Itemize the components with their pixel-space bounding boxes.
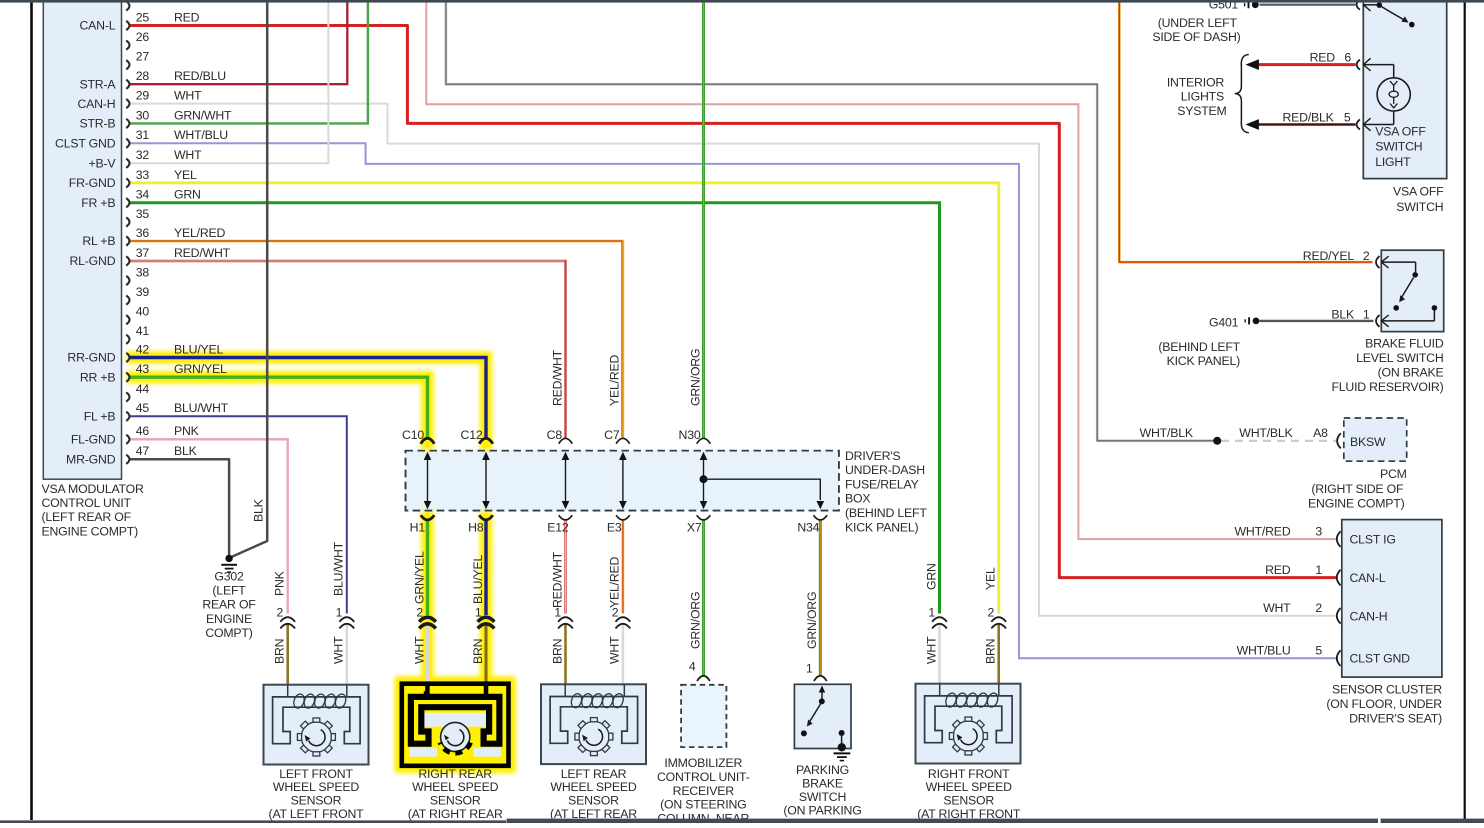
wire: pin 42 BLU/YEL to fuse box C12 (highlighted) <box>129 358 486 439</box>
top window bar <box>0 0 1484 3</box>
wire: BRN to left front sensor pin 2 <box>286 624 289 685</box>
left rear wheel speed sensor box <box>541 684 646 764</box>
VSA modulator pin connector arcs <box>126 1 129 464</box>
svg-text:1: 1 <box>928 606 935 620</box>
fuse box N30 junction dot and branch to N34 <box>700 475 825 509</box>
svg-text:SENSOR CLUSTER: SENSOR CLUSTER <box>1332 683 1442 697</box>
svg-text:+B-V: +B-V <box>89 156 117 170</box>
fuse box connector C10 <box>421 438 435 443</box>
wire: pin 36 YEL/RED to fuse box C7 <box>129 241 623 439</box>
highlight band: RR-GND BLU/YEL wire (pin 42) <box>127 358 486 451</box>
svg-text:C8: C8 <box>547 428 563 442</box>
svg-text:BRN: BRN <box>984 639 998 664</box>
wire: GRN/ORG fuse box X7 down to immobilizer pin 4 <box>702 520 705 676</box>
svg-text:RED: RED <box>1310 50 1336 64</box>
svg-text:1: 1 <box>1363 307 1370 321</box>
svg-text:KICK PANEL): KICK PANEL) <box>845 520 919 534</box>
wire: fuse box E3 YEL/RED down to inline connector <box>622 520 625 614</box>
inline connector left front 1 <box>339 617 354 628</box>
wire: WHT to left front sensor pin 1 <box>345 624 348 685</box>
svg-text:C10: C10 <box>402 428 424 442</box>
highlighted sensor yoke <box>411 697 500 744</box>
svg-text:G401: G401 <box>1209 315 1239 329</box>
svg-text:LEFT FRONT: LEFT FRONT <box>279 767 353 781</box>
svg-text:(LEFT: (LEFT <box>212 584 246 598</box>
svg-text:37: 37 <box>136 246 150 260</box>
svg-text:RIGHT REAR: RIGHT REAR <box>418 767 492 781</box>
svg-text:WHT: WHT <box>174 148 202 162</box>
svg-text:4: 4 <box>689 660 696 674</box>
svg-text:WHEEL SPEED: WHEEL SPEED <box>412 780 498 794</box>
VSA OFF switch internal switch <box>1363 2 1414 27</box>
highlight band: H8 to right rear sensor <box>480 511 493 684</box>
svg-text:(ON STEERING: (ON STEERING <box>660 798 746 812</box>
svg-text:(ON BRAKE: (ON BRAKE <box>1378 366 1444 380</box>
svg-text:33: 33 <box>136 168 150 182</box>
svg-text:WHT: WHT <box>412 636 426 664</box>
fuse box connector C12 <box>479 438 493 443</box>
wire: G401 BLK to brake fluid level switch pin 1 <box>1260 320 1374 322</box>
sensor cluster connector CLST GND <box>1337 650 1341 666</box>
fuse box pass-through arrow C12/H8 <box>482 452 490 509</box>
sensor rotation arrow <box>309 730 325 746</box>
svg-text:1: 1 <box>1315 563 1322 577</box>
highlighted sensor coil tick <box>424 691 428 698</box>
fuse box connector H1 <box>421 515 435 520</box>
fuse box connector E12 <box>559 515 573 520</box>
wire: WHT below inline connector to right front sensor pin 1 <box>938 624 941 684</box>
wire: fuse box H8 BLU/YEL down to inline connector (highlighted) <box>484 520 487 615</box>
svg-text:46: 46 <box>136 424 150 438</box>
svg-text:(ON FLOOR, UNDER: (ON FLOOR, UNDER <box>1326 697 1442 711</box>
svg-text:ENGINE COMPT): ENGINE COMPT) <box>1308 496 1405 510</box>
svg-text:GRN/YEL: GRN/YEL <box>174 362 227 376</box>
svg-text:2: 2 <box>988 606 995 620</box>
svg-text:(BEHIND LEFT: (BEHIND LEFT <box>1158 340 1240 354</box>
wire: pin 46 PNK to left front sensor pin 2 <box>129 439 288 613</box>
svg-text:PCM: PCM <box>1380 467 1407 481</box>
svg-text:45: 45 <box>136 401 150 415</box>
svg-text:(BEHIND LEFT: (BEHIND LEFT <box>845 506 927 520</box>
wire: pin 28 RED/BLU up to top <box>129 2 347 84</box>
fuse box connector N34 <box>814 515 828 520</box>
svg-text:GRN: GRN <box>174 188 201 202</box>
highlight band: RR +B GRN/YEL wire (pin 43) <box>127 377 428 450</box>
svg-text:CLST GND: CLST GND <box>55 136 116 150</box>
right page border <box>1464 0 1466 819</box>
svg-text:MR-GND: MR-GND <box>66 453 116 467</box>
svg-text:RED: RED <box>174 10 200 24</box>
wire: GRN/ORG from top to fuse box N30 <box>702 2 705 439</box>
parking brake switch ground <box>834 753 851 760</box>
svg-text:FL-GND: FL-GND <box>71 433 116 447</box>
driver's under-dash fuse/relay box <box>406 451 839 511</box>
inline connector right front 1 <box>932 617 947 628</box>
svg-text:(LEFT REAR OF: (LEFT REAR OF <box>42 510 132 524</box>
svg-text:BLU/YEL: BLU/YEL <box>174 342 224 356</box>
svg-text:WHEEL SPEED: WHEEL SPEED <box>273 780 359 794</box>
svg-text:WHEEL SPEED: WHEEL SPEED <box>926 780 1012 794</box>
VSA OFF switch caption <box>1393 185 1444 214</box>
svg-text:WHT/BLK: WHT/BLK <box>1239 426 1293 440</box>
svg-text:FL +B: FL +B <box>84 410 116 424</box>
svg-text:YEL: YEL <box>174 168 197 182</box>
svg-text:YEL: YEL <box>984 567 998 590</box>
ground G302 <box>221 555 237 573</box>
sensor yoke <box>550 697 638 744</box>
RED/BLK pin 5 labels <box>1282 110 1350 124</box>
svg-text:YEL/RED: YEL/RED <box>608 354 622 406</box>
svg-text:1: 1 <box>336 606 343 620</box>
wire: BRN below inline connector to right front sensor pin 2 <box>997 624 1000 684</box>
sensor tone wheel <box>953 721 983 751</box>
svg-text:WHT/BLU: WHT/BLU <box>1237 643 1291 657</box>
svg-text:1: 1 <box>806 662 813 676</box>
svg-text:2: 2 <box>1363 249 1370 263</box>
svg-text:FLUID RESERVOIR): FLUID RESERVOIR) <box>1331 380 1443 394</box>
svg-text:BRN: BRN <box>471 639 485 664</box>
svg-text:CAN-H: CAN-H <box>1350 609 1388 623</box>
svg-text:RIGHT FRONT: RIGHT FRONT <box>928 767 1010 781</box>
inline connector right rear 1 <box>478 617 495 628</box>
sensor rotation arrow <box>961 729 977 745</box>
svg-text:LIGHTS: LIGHTS <box>1181 90 1224 104</box>
bottom window bar <box>0 820 506 823</box>
brake fluid level switch contacts <box>1381 256 1437 327</box>
svg-text:35: 35 <box>136 207 150 221</box>
parking brake switch caption <box>783 763 861 818</box>
svg-text:WHT: WHT <box>174 89 202 103</box>
fuse box connector X7 <box>697 515 711 520</box>
immobilizer caption <box>657 756 750 825</box>
sensor coil <box>944 692 958 709</box>
svg-text:STR-A: STR-A <box>79 77 116 91</box>
svg-text:42: 42 <box>136 342 150 356</box>
wire: pin 29 WHT to sensor cluster CAN-H <box>129 104 1336 616</box>
fuse box bottom labels <box>410 521 820 535</box>
svg-text:CONTROL UNIT-: CONTROL UNIT- <box>657 770 750 784</box>
svg-text:RECEIVER: RECEIVER <box>673 784 735 798</box>
svg-text:BOX: BOX <box>845 492 870 506</box>
PCM BKSW box <box>1344 418 1407 461</box>
svg-text:SENSOR: SENSOR <box>943 794 994 808</box>
wire: WHT/RED from top to sensor cluster CLST IG <box>426 2 1336 539</box>
highlight glow: right rear wheel speed sensor <box>395 676 517 773</box>
sensor lead stubs <box>939 684 941 696</box>
svg-text:2: 2 <box>1315 601 1322 615</box>
svg-text:29: 29 <box>136 89 150 103</box>
svg-text:YEL/RED: YEL/RED <box>608 556 622 608</box>
svg-text:GRN/ORG: GRN/ORG <box>688 592 702 649</box>
svg-text:DRIVER'S SEAT): DRIVER'S SEAT) <box>1349 711 1442 725</box>
fuse box border redraw <box>406 451 839 511</box>
wire: WHT to right rear sensor pin 2 (highlighted) <box>426 624 429 685</box>
svg-text:WHT/RED: WHT/RED <box>1235 524 1291 538</box>
VSA modulator pin numbers <box>136 10 150 458</box>
svg-text:SENSOR: SENSOR <box>568 794 619 808</box>
svg-text:INTERIOR: INTERIOR <box>1167 76 1224 90</box>
WHT/BLK labels and A8 <box>1140 426 1329 440</box>
svg-text:GRN/ORG: GRN/ORG <box>805 592 819 649</box>
svg-text:1: 1 <box>475 606 482 620</box>
svg-text:WHT/BLU: WHT/BLU <box>174 128 228 142</box>
wire: pin 34 GRN to right front sensor pin 1 <box>129 203 940 614</box>
sensor yoke <box>273 697 361 744</box>
svg-text:(RIGHT SIDE OF: (RIGHT SIDE OF <box>1311 482 1404 496</box>
svg-text:E12: E12 <box>547 521 569 535</box>
left page border <box>30 0 33 820</box>
svg-text:RED/WHT: RED/WHT <box>174 246 231 260</box>
brake fluid level switch box <box>1381 250 1443 331</box>
G401 caption <box>1158 315 1240 368</box>
wire: RED from interior lights system to VSA OFF switch pin 6 <box>1258 63 1356 66</box>
svg-text:VSA OFF: VSA OFF <box>1393 185 1444 199</box>
svg-text:32: 32 <box>136 148 150 162</box>
svg-text:VSA OFF: VSA OFF <box>1375 124 1426 138</box>
svg-text:RED: RED <box>1265 563 1291 577</box>
svg-text:SWITCH: SWITCH <box>1396 200 1443 214</box>
RED/YEL pin 2 labels <box>1303 249 1370 263</box>
svg-text:43: 43 <box>136 362 150 376</box>
svg-text:RED/BLK: RED/BLK <box>1282 110 1334 124</box>
svg-text:PNK: PNK <box>174 424 200 438</box>
svg-text:39: 39 <box>136 285 150 299</box>
sensor rotation arrow <box>586 729 602 745</box>
svg-text:(AT LEFT FRONT: (AT LEFT FRONT <box>269 807 365 821</box>
VSA OFF switch pin 6 connector <box>1357 60 1360 70</box>
VSA OFF switch light caption <box>1375 124 1426 169</box>
svg-text:YEL/RED: YEL/RED <box>174 226 226 240</box>
svg-text:VSA MODULATOR: VSA MODULATOR <box>42 482 144 496</box>
inline connector left rear 1 <box>558 617 573 628</box>
BKSW junction dot <box>1213 437 1221 445</box>
fuse box pass-through arrow C8/E12 <box>562 452 570 509</box>
right front wheel speed sensor caption <box>917 767 1021 821</box>
svg-text:GRN/WHT: GRN/WHT <box>174 108 232 122</box>
svg-text:BRAKE: BRAKE <box>802 776 843 790</box>
svg-text:RED/WHT: RED/WHT <box>550 349 564 406</box>
svg-text:ENGINE COMPT): ENGINE COMPT) <box>42 524 139 538</box>
parking brake switch box <box>794 684 851 748</box>
svg-text:RR-GND: RR-GND <box>67 351 115 365</box>
svg-text:N30: N30 <box>679 428 701 442</box>
svg-text:ENGINE: ENGINE <box>206 612 252 626</box>
svg-text:PARKING: PARKING <box>796 763 849 777</box>
sensor cluster connector CAN-L <box>1337 570 1341 586</box>
svg-text:6: 6 <box>1344 50 1351 64</box>
ground G401 <box>1245 317 1259 324</box>
G302 caption <box>202 569 256 640</box>
svg-text:SIDE OF DASH): SIDE OF DASH) <box>1152 30 1240 44</box>
RED pin 6 labels <box>1310 50 1352 64</box>
fuse box pass-through arrow N30/X7 <box>700 452 708 509</box>
sensor pin numbers <box>277 606 995 620</box>
VSA OFF switch top pin connector <box>1357 0 1360 10</box>
wire: GRN/ORG fuse box N34 down to parking brake switch pin 1 <box>819 520 822 676</box>
PCM caption <box>1308 467 1407 510</box>
svg-text:WHT: WHT <box>332 636 346 664</box>
wire: pin 47 BLK to ground G302 <box>129 459 229 555</box>
inline connector left rear 2 <box>616 617 631 628</box>
left rear wheel speed sensor caption <box>550 767 637 821</box>
fuse box top labels <box>402 428 701 442</box>
wire: RED/YEL from top to brake fluid level switch pin 2 <box>1119 2 1372 262</box>
fuse box connector H8 <box>479 515 493 520</box>
svg-text:E3: E3 <box>607 521 622 535</box>
fuse box connector E3 <box>616 515 630 520</box>
wire: pin 33 YEL to right front sensor pin 2 <box>129 183 999 614</box>
svg-text:BLK: BLK <box>1331 307 1355 321</box>
interior lights system caption <box>1167 76 1227 118</box>
wire: WHT/BLK dashed part to BKSW <box>1221 440 1336 442</box>
svg-text:FUSE/RELAY: FUSE/RELAY <box>845 477 919 491</box>
fuse box connector C8 <box>559 438 573 443</box>
sensor cluster connector CLST IG <box>1337 531 1341 547</box>
inline connector left front 2 <box>280 617 295 628</box>
interior lights system brace <box>1235 55 1249 133</box>
svg-text:40: 40 <box>136 305 150 319</box>
svg-text:WHT/BLK: WHT/BLK <box>1140 426 1194 440</box>
svg-text:2: 2 <box>612 606 619 620</box>
svg-text:31: 31 <box>136 128 150 142</box>
wire: pin 25 RED to sensor cluster CAN-L <box>129 26 1336 578</box>
VSA modulator wire color labels <box>174 10 232 458</box>
svg-text:BLU/WHT: BLU/WHT <box>174 401 229 415</box>
sensor cluster connector CAN-H <box>1337 608 1341 624</box>
svg-text:BRN: BRN <box>273 639 287 664</box>
svg-text:38: 38 <box>136 265 150 279</box>
svg-text:CAN-L: CAN-L <box>1350 571 1386 585</box>
VSA modulator control unit caption <box>42 482 144 539</box>
sensor cluster wire labels and pin numbers <box>1235 524 1323 657</box>
VSA OFF switch pin 5 connector <box>1357 120 1360 130</box>
fuse box connector C7 <box>616 438 630 443</box>
svg-text:CAN-H: CAN-H <box>77 97 115 111</box>
svg-text:5: 5 <box>1344 110 1351 124</box>
wire: RED/BLK from interior lights system to VSA OFF switch pin 5 <box>1258 123 1356 126</box>
svg-text:BKSW: BKSW <box>1350 435 1386 449</box>
arrow to interior lights (RED/BLK) <box>1245 119 1259 130</box>
svg-text:G302: G302 <box>214 569 244 583</box>
wire: BRN to right rear sensor pin 1 (highlighted) <box>485 624 488 685</box>
sensor tone wheel <box>579 722 609 752</box>
svg-text:SWITCH: SWITCH <box>1375 140 1422 154</box>
svg-text:CLST GND: CLST GND <box>1350 652 1411 666</box>
svg-text:SYSTEM: SYSTEM <box>1177 104 1226 118</box>
svg-text:CONTROL UNIT: CONTROL UNIT <box>42 496 132 510</box>
svg-text:STR-B: STR-B <box>79 117 115 131</box>
svg-text:28: 28 <box>136 69 150 83</box>
wire: pin 30 GRN/WHT up to top <box>129 2 368 123</box>
svg-text:PNK: PNK <box>273 570 287 596</box>
VSA modulator terminal name labels <box>55 19 116 467</box>
svg-text:BLK: BLK <box>174 444 198 458</box>
svg-text:H8: H8 <box>468 521 484 535</box>
svg-text:41: 41 <box>136 324 150 338</box>
parking brake switch contacts <box>801 686 846 752</box>
sensor coil <box>570 692 584 709</box>
inline connector right front 2 <box>991 617 1006 628</box>
wire: WHT to left rear sensor pin 2 <box>622 624 625 684</box>
svg-text:GRN/ORG: GRN/ORG <box>688 349 702 406</box>
svg-text:5: 5 <box>1315 643 1322 657</box>
svg-text:(UNDER LEFT: (UNDER LEFT <box>1158 16 1238 30</box>
svg-text:2: 2 <box>416 606 423 620</box>
ground G501 <box>1245 1 1259 8</box>
fuse box pass-through arrow C10/H1 <box>424 452 432 509</box>
svg-text:CAN-L: CAN-L <box>79 19 115 33</box>
sensor cluster box <box>1342 520 1442 678</box>
svg-text:2: 2 <box>277 606 284 620</box>
wire: pin 45 BLU/WHT to left front sensor pin 1 <box>129 416 347 613</box>
highlighted sensor lead stubs <box>425 684 430 697</box>
fuse box pass-through arrow C7/E3 <box>619 452 627 509</box>
svg-text:COMPT): COMPT) <box>205 626 252 640</box>
svg-text:GRN/YEL: GRN/YEL <box>412 551 426 604</box>
sensor tone wheel <box>301 722 331 752</box>
fuse box connector N30 <box>697 438 711 443</box>
svg-text:BRN: BRN <box>550 639 564 664</box>
svg-text:WHT: WHT <box>608 636 622 664</box>
svg-text:RED/WHT: RED/WHT <box>550 551 564 608</box>
svg-text:A8: A8 <box>1313 426 1328 440</box>
svg-text:N34: N34 <box>797 521 819 535</box>
wire: pin 32 WHT up to top <box>129 2 328 163</box>
sensor coil <box>292 693 306 710</box>
svg-text:IMMOBILIZER: IMMOBILIZER <box>664 756 742 770</box>
svg-text:GRN: GRN <box>924 563 938 590</box>
svg-text:CLST IG: CLST IG <box>1350 533 1396 547</box>
svg-text:27: 27 <box>136 50 150 64</box>
svg-text:44: 44 <box>136 382 150 396</box>
svg-text:X7: X7 <box>687 521 702 535</box>
svg-text:BLU/YEL: BLU/YEL <box>471 554 485 604</box>
svg-text:RED/YEL: RED/YEL <box>1303 249 1355 263</box>
wire: BRN to left rear sensor pin 1 <box>564 624 567 684</box>
svg-text:BLK: BLK <box>252 498 266 522</box>
svg-text:36: 36 <box>136 226 150 240</box>
svg-text:LIGHT: LIGHT <box>1375 155 1411 169</box>
arrow to interior lights (RED) <box>1245 59 1259 70</box>
BKSW connector <box>1337 433 1341 448</box>
svg-text:RR +B: RR +B <box>80 370 116 384</box>
right rear wheel speed sensor caption <box>408 767 503 821</box>
VSA OFF switch box <box>1363 1 1446 179</box>
svg-text:(AT RIGHT REAR: (AT RIGHT REAR <box>408 807 503 821</box>
svg-text:47: 47 <box>136 444 150 458</box>
highlight band: H1 to right rear sensor <box>421 511 434 684</box>
wire: fuse box H1 GRN/YEL down to inline connector (highlighted) <box>426 520 429 615</box>
brake fluid level switch caption <box>1331 336 1443 394</box>
inline connector right rear 2 <box>419 617 436 628</box>
svg-text:REAR OF: REAR OF <box>202 598 256 612</box>
wire: G501 BLK to VSA OFF switch <box>1260 4 1356 6</box>
svg-text:30: 30 <box>136 108 150 122</box>
svg-text:SWITCH: SWITCH <box>799 790 846 804</box>
svg-text:RL-GND: RL-GND <box>69 254 115 268</box>
wire: WHT/BLK from top to PCM BKSW (solid part) <box>446 2 1217 441</box>
svg-text:25: 25 <box>136 10 150 24</box>
wire: fuse box E12 RED/WHT down to inline connector <box>564 520 566 614</box>
svg-text:1: 1 <box>554 606 561 620</box>
svg-text:RED/BLU: RED/BLU <box>174 69 226 83</box>
svg-text:C12: C12 <box>461 428 483 442</box>
svg-text:26: 26 <box>136 30 150 44</box>
svg-text:(ON PARKING: (ON PARKING <box>783 804 861 818</box>
svg-text:LEVEL SWITCH: LEVEL SWITCH <box>1356 351 1443 365</box>
sensor yoke <box>925 696 1013 743</box>
svg-text:DRIVER'S: DRIVER'S <box>845 449 900 463</box>
